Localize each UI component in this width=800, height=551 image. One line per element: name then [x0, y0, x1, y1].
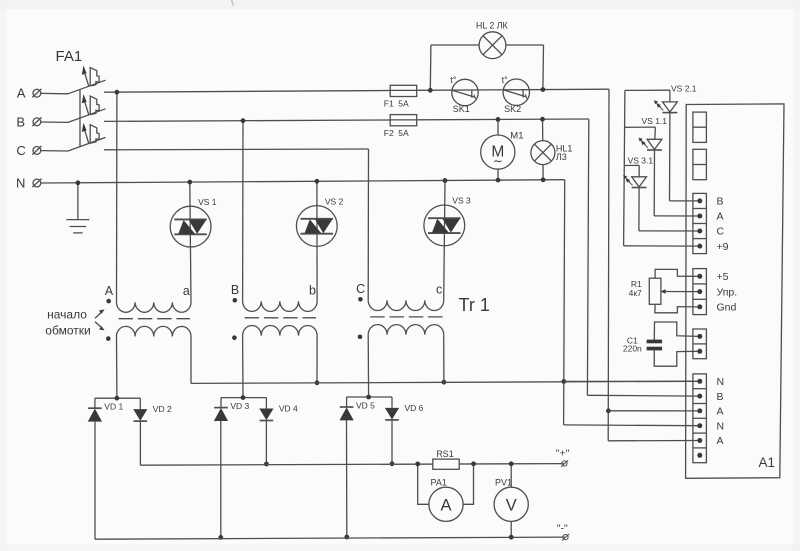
svg-text:VD 5: VD 5	[356, 401, 375, 411]
svg-text:SK1: SK1	[453, 104, 470, 114]
svg-text:4к7: 4к7	[629, 288, 642, 298]
transformer Tr1 winding 2 (primary+secondary)	[231, 283, 317, 340]
wire PA1 left leg	[415, 462, 429, 505]
wire HL2 left leg	[428, 45, 433, 93]
wire R1 bottom	[655, 304, 699, 313]
circuit breaker FA1 pole A	[41, 66, 106, 94]
wire VS3.1 anode feed	[624, 165, 639, 176]
svg-text:VS 2: VS 2	[325, 196, 344, 206]
wire B sense drop	[587, 119, 588, 395]
svg-text:VD 1: VD 1	[104, 402, 123, 412]
svg-text:+5: +5	[717, 271, 729, 283]
wire PA1 right leg	[463, 461, 476, 504]
node minus output terminal	[557, 522, 569, 540]
svg-text:VS 2.1: VS 2.1	[671, 84, 697, 94]
wire A sense to row3	[608, 410, 698, 412]
wire VS2.1 anode feed	[625, 90, 670, 102]
voltmeter PV1	[494, 478, 528, 522]
resistor RS1	[433, 449, 459, 469]
fuse F1	[384, 85, 417, 108]
svg-text:HL 2 ЛК: HL 2 ЛК	[476, 21, 508, 31]
wire C1 top	[654, 322, 698, 340]
wire VD6 anode drop	[390, 420, 395, 466]
node A (phase input terminal)	[17, 86, 42, 101]
wire HL2 top left	[431, 44, 479, 46]
svg-text:F2: F2	[384, 128, 394, 138]
lamp HL2	[476, 21, 508, 59]
svg-text:RS1: RS1	[436, 449, 454, 459]
switch SK1 (thermal)	[450, 75, 478, 114]
transformer Tr1 winding 1 (primary+secondary)	[105, 284, 191, 341]
circuit breaker FA1 pole C	[41, 123, 106, 151]
svg-text:B: B	[16, 114, 25, 129]
wire M1 bottom	[496, 169, 501, 182]
capacitor C1	[623, 335, 662, 353]
diode VD 5	[340, 397, 376, 420]
svg-text:VD 6: VD 6	[405, 403, 424, 413]
wire secondary 1 left drop	[116, 337, 118, 399]
svg-text:PV1: PV1	[495, 478, 512, 488]
wire PV1 top leg	[509, 461, 514, 487]
svg-text:Упр.: Упр.	[717, 286, 738, 298]
svg-text:F1: F1	[384, 99, 394, 109]
svg-text:С: С	[717, 226, 725, 238]
svg-text:A: A	[717, 406, 724, 418]
node C (phase input terminal)	[16, 143, 41, 158]
transformer Tr1 winding 3 (primary+secondary)	[356, 282, 444, 339]
scan shading top edge	[0, 0, 800, 9]
wire HL1 bottom	[541, 165, 546, 183]
svg-text:VD 2: VD 2	[153, 404, 172, 414]
wire phase C bus	[104, 148, 369, 151]
LED VS2.1 (optocoupler)	[654, 84, 697, 113]
wire plus bus	[140, 464, 563, 466]
svg-text:t°: t°	[502, 75, 509, 85]
wire phase B drop to primary	[241, 118, 246, 301]
svg-text:PA1: PA1	[431, 478, 447, 488]
wire triac VS1 branch	[187, 180, 192, 303]
wire PV1 bottom leg	[509, 521, 514, 539]
svg-text:B: B	[231, 283, 239, 297]
wire secondary 3 left drop	[367, 335, 369, 397]
motor M1	[481, 130, 524, 169]
svg-text:A: A	[17, 86, 26, 101]
node diode pair 1/2 junction	[95, 396, 140, 401]
wire phase C drop to primary	[367, 149, 369, 300]
svg-text:Л3: Л3	[556, 152, 567, 162]
wire A sense drop	[606, 89, 611, 441]
wire A sense to row5	[608, 440, 698, 442]
svg-text:VS 1.1: VS 1.1	[642, 116, 668, 126]
svg-text:N: N	[717, 420, 725, 432]
wire R1 top	[655, 269, 698, 278]
svg-text:C: C	[16, 143, 25, 158]
svg-text:А: А	[717, 211, 724, 223]
wire VD4 anode drop	[264, 420, 269, 466]
wire B sense to row2	[587, 394, 698, 397]
svg-text:V: V	[506, 497, 517, 515]
triac VS3	[424, 196, 471, 246]
wire phase A bus	[104, 89, 609, 92]
ground	[66, 220, 89, 233]
triac VS2	[296, 196, 343, 246]
svg-text:a: a	[183, 284, 190, 298]
board A1 outline	[686, 104, 784, 478]
wire VS3.1 cathode to C row	[639, 188, 699, 232]
switch SK2 (thermal)	[502, 75, 530, 114]
svg-text:t°: t°	[450, 75, 457, 85]
circuit breaker FA1 label	[56, 48, 83, 65]
wire VD5 cathode drop	[344, 420, 349, 539]
scan shading right edge	[793, 0, 800, 551]
svg-text:M1: M1	[510, 130, 523, 141]
wire secondary 3 right drop	[442, 335, 447, 385]
svg-text:N: N	[16, 176, 25, 191]
wire secondary 1 right drop	[190, 337, 192, 384]
wire secondary star bus	[191, 381, 693, 383]
connector block (top, unused) 1	[693, 112, 707, 142]
wire HL2 right leg	[541, 45, 546, 92]
svg-text:"-": "-"	[557, 522, 568, 534]
svg-text:VS 1: VS 1	[198, 197, 217, 207]
diode VD 2	[133, 398, 172, 421]
svg-text:A: A	[717, 435, 724, 447]
wire M1 top	[496, 117, 501, 135]
svg-text:обмотки: обмотки	[45, 323, 90, 337]
node N (neutral input terminal)	[16, 176, 42, 191]
wire triac VS3 branch	[443, 178, 448, 300]
connector block B/A/C/+9	[693, 193, 729, 253]
svg-text:B: B	[717, 391, 724, 403]
circuit breaker FA1 pole B	[41, 94, 106, 122]
svg-text:Tr 1: Tr 1	[459, 295, 490, 315]
wire secondary 2 left drop	[242, 336, 244, 398]
fuse F2	[384, 115, 417, 138]
svg-text:SK2: SK2	[504, 104, 521, 114]
svg-text:VS 3.1: VS 3.1	[628, 155, 654, 165]
svg-text:A: A	[440, 497, 451, 515]
svg-text:A: A	[105, 284, 114, 298]
svg-text:VD 4: VD 4	[279, 404, 298, 414]
wire N sense drop	[561, 180, 566, 425]
transformer Tr1 label	[459, 295, 490, 315]
wire secondary 2 right drop	[315, 336, 320, 386]
wire VS2.1 cathode to B row	[670, 113, 699, 201]
svg-text:C: C	[356, 282, 365, 296]
node plus output terminal	[556, 448, 570, 467]
svg-text:∼: ∼	[493, 154, 503, 168]
resistor R1 (potentiometer)	[629, 278, 661, 304]
wire VD1 cathode drop	[94, 421, 96, 539]
wire VD2 anode drop	[139, 421, 141, 465]
LED VS3.1 (optocoupler)	[623, 155, 653, 187]
svg-text:A1: A1	[759, 455, 776, 470]
node B (phase input terminal)	[16, 114, 41, 129]
scan mark top	[232, 0, 234, 6]
wire star bus to row1	[564, 380, 699, 382]
svg-text:"+": "+"	[556, 448, 570, 460]
wire triac VS2 branch	[315, 179, 320, 301]
svg-text:Gnd: Gnd	[717, 302, 737, 314]
svg-text:5A: 5A	[398, 128, 409, 138]
svg-text:VD 3: VD 3	[230, 401, 249, 411]
diode VD 1	[88, 398, 124, 421]
svg-text:N: N	[717, 376, 725, 388]
wire +9 anode bus vertical	[624, 90, 625, 245]
wire neutral N bus	[41, 180, 565, 183]
diode VD 4	[259, 398, 298, 421]
wire HL1 top	[540, 117, 545, 141]
connector block (top, unused) 2	[693, 149, 707, 179]
svg-text:начало: начало	[47, 308, 87, 322]
wire VS1.1 anode feed	[625, 127, 656, 139]
wire phase A drop to primary	[115, 90, 120, 302]
wire HL2 top right	[506, 44, 544, 46]
wire VS1.1 cathode to A row	[654, 150, 698, 216]
circuit breaker FA1 trip link bar	[79, 89, 81, 146]
LED VS1.1 (optocoupler)	[639, 116, 668, 150]
wire +9 feed to row	[624, 245, 699, 247]
diode VD 6	[385, 397, 424, 420]
svg-text:c: c	[436, 282, 442, 296]
node diode pair 5/6 junction	[347, 395, 392, 400]
wire ground drop	[76, 180, 81, 219]
ammeter PA1	[429, 478, 463, 522]
wire phase B bus	[104, 119, 589, 121]
scan shading left edge	[0, 0, 7, 551]
wire C1 bottom	[654, 350, 698, 366]
winding start note (начало обмотки)	[45, 308, 104, 338]
svg-text:VS 3: VS 3	[452, 196, 471, 206]
wire minus bus	[95, 537, 565, 539]
scan shading bottom edge	[0, 544, 800, 551]
connector block C1	[693, 329, 707, 359]
wire VD3 cathode drop	[218, 421, 223, 540]
lamp HL1	[531, 141, 573, 165]
wire R1 wiper	[661, 289, 699, 293]
svg-text:5A: 5A	[398, 99, 409, 109]
svg-text:В: В	[717, 196, 724, 208]
svg-text:+9: +9	[717, 241, 729, 253]
svg-text:220n: 220n	[623, 344, 642, 354]
connector block N/B/A/N/A	[693, 374, 724, 463]
diode VD 3	[214, 398, 250, 421]
svg-text:FA1: FA1	[56, 48, 83, 65]
wire N sense to row4	[564, 424, 699, 427]
node diode pair 3/4 junction	[221, 395, 266, 400]
svg-text:b: b	[309, 283, 316, 297]
connector block +5/Упр/Gnd	[693, 269, 737, 315]
triac VS1	[170, 197, 217, 247]
